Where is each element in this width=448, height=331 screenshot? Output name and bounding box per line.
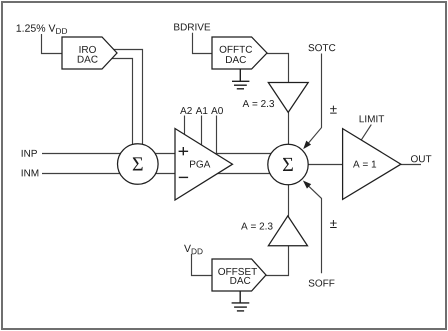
wire 1.25%VDD to IRO DAC (42, 34, 63, 54)
label SOTC (308, 44, 335, 51)
summing symbol sigma node A (133, 157, 143, 170)
wire LIMIT pointer (361, 125, 371, 141)
label OUT (411, 155, 431, 162)
label OFFTC DAC (220, 46, 252, 63)
amplifier A=2.3 bottom triangle (268, 216, 307, 246)
label A = 2.3 top (243, 100, 275, 107)
wire A0 select to PGA (216, 116, 218, 158)
wire IRO DAC upper output to summing node A (112, 50, 143, 151)
wire A2 select to PGA (184, 116, 186, 138)
label A2 (180, 107, 192, 114)
wire OFFTC DAC through amp A2.3T to summing node B (267, 54, 289, 161)
label INM (22, 170, 39, 177)
summing symbol sigma node B (283, 158, 293, 171)
wire IRO DAC lower output to summing node A (111, 59, 133, 151)
label LIMIT (360, 115, 385, 122)
DAC block OFFSET DAC (212, 259, 266, 291)
wire INM to summing node A (42, 173, 271, 175)
label plus-minus bottom (330, 220, 337, 228)
DAC block OFFTC DAC (212, 37, 267, 69)
wire SOTC arrow line (306, 54, 321, 146)
wire INP to summing node A (42, 153, 272, 155)
amplifier A=2.3 top triangle (268, 83, 308, 113)
label IRO DAC (78, 46, 98, 63)
label A1 (196, 107, 208, 114)
arrowhead SOFF into summing node B (301, 178, 311, 188)
DAC block IRO DAC (62, 37, 117, 69)
label plus input of PGA (179, 147, 189, 155)
label SOFF (309, 280, 335, 287)
label OFFSET DAC (218, 268, 257, 284)
wire VDD to OFFSET DAC (192, 254, 213, 276)
wire output amp to OUT (401, 164, 421, 166)
summing node B circle (268, 144, 308, 184)
ground below OFFTC DAC (232, 69, 249, 89)
wire summing node B to output amp (308, 164, 343, 166)
label A0 (211, 107, 223, 114)
amplifier A=1 output triangle (343, 129, 401, 200)
label minus input of PGA (179, 176, 188, 178)
ground below OFFSET DAC (232, 291, 250, 311)
label INP (22, 150, 37, 157)
arrowhead SOTC into summing node B (301, 141, 311, 151)
label plus-minus top (330, 106, 337, 114)
summing node A circle (118, 144, 159, 185)
label VDD bottom (184, 245, 203, 254)
label PGA (190, 161, 210, 168)
label A = 2.3 bottom (241, 223, 273, 230)
label A = 1 (353, 161, 376, 168)
wire A1 select to PGA (201, 116, 203, 148)
label BDRIVE (174, 24, 210, 31)
wire OFFSET DAC through amp A2.3B to summing node B (266, 170, 289, 276)
amplifier PGA triangle (175, 129, 233, 201)
label 1.25% VDD (17, 24, 67, 34)
wire BDRIVE to OFFTC DAC (193, 33, 213, 54)
wire SOFF arrow line (307, 184, 322, 273)
